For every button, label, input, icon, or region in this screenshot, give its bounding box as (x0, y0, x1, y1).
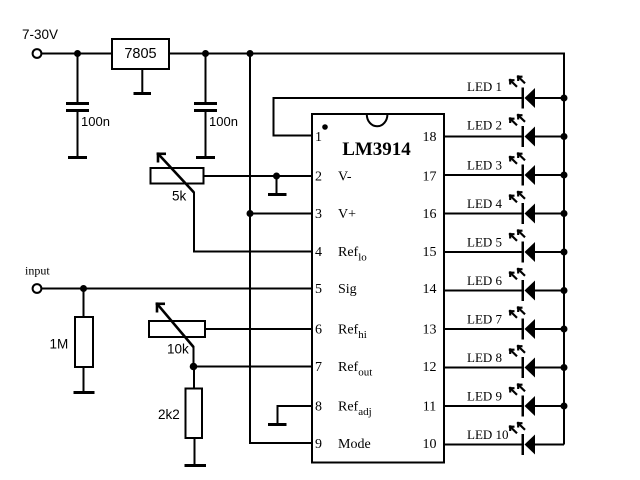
svg-text:9: 9 (315, 437, 322, 452)
svg-text:LED 6: LED 6 (467, 273, 503, 288)
junction node LED5/rail (561, 249, 568, 256)
junction node LED7/rail (561, 326, 568, 333)
LED D3 (LED 3) (444, 152, 564, 185)
svg-text:LED 5: LED 5 (467, 235, 502, 250)
svg-text:LED 2: LED 2 (467, 118, 502, 133)
svg-text:7-30V: 7-30V (22, 27, 58, 42)
capacitor C1 100n (66, 54, 89, 157)
LED D4 (LED 4) (444, 191, 564, 224)
svg-text:LED 8: LED 8 (467, 350, 502, 365)
LED D10 (LED 10) (444, 422, 564, 455)
svg-text:LED 4: LED 4 (467, 196, 503, 211)
svg-text:LED 3: LED 3 (467, 158, 502, 173)
svg-text:LED 1: LED 1 (467, 79, 502, 94)
LED D1 (LED 1) (467, 75, 564, 108)
ground (7805) (134, 69, 152, 95)
junction node C (247, 50, 254, 57)
svg-text:16: 16 (423, 207, 437, 222)
svg-text:11: 11 (423, 400, 436, 415)
svg-text:LED 7: LED 7 (467, 312, 503, 327)
svg-text:7805: 7805 (124, 46, 156, 62)
wire pin 1 to LED1 row (274, 98, 522, 136)
svg-text:15: 15 (423, 245, 437, 260)
svg-text:5: 5 (315, 282, 322, 297)
LED D6 (LED 6) (444, 268, 564, 301)
resistor R4 2k2 (186, 367, 203, 466)
LED D9 (LED 9) (444, 383, 564, 416)
svg-text:3: 3 (315, 207, 322, 222)
potentiometer R1 5k (151, 152, 204, 192)
ground (C2) (196, 156, 215, 159)
wire right supply rail (563, 53, 565, 445)
svg-text:2: 2 (315, 170, 322, 185)
svg-text:6: 6 (315, 323, 322, 338)
ground (pin 2) (268, 176, 287, 196)
ground (R2) (74, 391, 95, 394)
svg-text:Sig: Sig (338, 282, 357, 297)
wire pin 7 Ref_out (194, 366, 312, 368)
wire pin 2 V- (203, 175, 312, 177)
wire pin 3 V+ (250, 213, 312, 215)
wire top supply rail (42, 53, 565, 55)
junction node G (190, 363, 198, 371)
ground (C1) (68, 156, 87, 159)
svg-text:12: 12 (423, 360, 437, 375)
capacitor C2 100n (194, 54, 217, 157)
wire wiper R3 to node G (193, 346, 195, 367)
svg-text:4: 4 (315, 245, 322, 260)
junction node LED8/rail (561, 364, 568, 371)
junction node LED1/rail (561, 95, 568, 102)
svg-text:100n: 100n (209, 114, 238, 129)
LED D8 (LED 8) (444, 345, 564, 378)
IC U1 LM3914 (312, 114, 444, 463)
junction node LED2/rail (561, 133, 568, 140)
LED D2 (LED 2) (444, 114, 564, 147)
junction node B (202, 50, 209, 57)
terminal 7-30V (33, 49, 42, 58)
svg-text:7: 7 (315, 360, 322, 375)
junction node LED6/rail (561, 287, 568, 294)
junction node D (247, 210, 254, 217)
svg-text:10: 10 (423, 437, 437, 452)
svg-text:10k: 10k (167, 342, 189, 357)
ground (pin 8) (268, 423, 287, 426)
potentiometer R3 10k (149, 302, 205, 347)
svg-text:LM3914: LM3914 (342, 139, 411, 160)
LED D7 (LED 7) (444, 306, 564, 339)
junction node E (273, 173, 280, 180)
notch (367, 115, 388, 127)
svg-text:Mode: Mode (338, 437, 371, 452)
svg-text:V-: V- (338, 170, 352, 185)
junction node F (80, 285, 87, 292)
wire input to pin 5 Sig (42, 288, 313, 290)
junction node LED3/rail (561, 172, 568, 179)
svg-text:input: input (25, 264, 50, 278)
svg-text:14: 14 (423, 282, 437, 297)
svg-text:LED 9: LED 9 (467, 389, 502, 404)
svg-text:2k2: 2k2 (158, 407, 180, 422)
svg-text:8: 8 (315, 400, 322, 415)
wire pin 6 Ref_hi (205, 328, 312, 330)
svg-text:100n: 100n (81, 114, 110, 129)
junction node LED4/rail (561, 210, 568, 217)
ground (R4) (185, 464, 207, 467)
wire V+ rail to pin 9 Mode (250, 53, 312, 444)
svg-text:1: 1 (315, 130, 322, 145)
svg-text:1M: 1M (50, 337, 69, 352)
svg-text:18: 18 (423, 130, 437, 145)
LED D5 (LED 5) (444, 229, 564, 262)
junction node LED9/rail (561, 403, 568, 410)
wire pin 8 Ref_adj to ground (278, 406, 313, 424)
junction node A (74, 50, 81, 57)
wire wiper R1 to pin 4 Ref_lo (194, 192, 312, 252)
svg-text:V+: V+ (338, 207, 356, 222)
svg-text:LED 10: LED 10 (467, 427, 509, 442)
terminal input (33, 284, 42, 293)
svg-text:13: 13 (423, 323, 437, 338)
resistor R2 1M (75, 289, 93, 393)
svg-text:5k: 5k (172, 189, 187, 204)
regulator U2 7805 (112, 39, 169, 69)
pin 1 indicator dot (322, 124, 328, 130)
svg-text:17: 17 (423, 170, 437, 185)
